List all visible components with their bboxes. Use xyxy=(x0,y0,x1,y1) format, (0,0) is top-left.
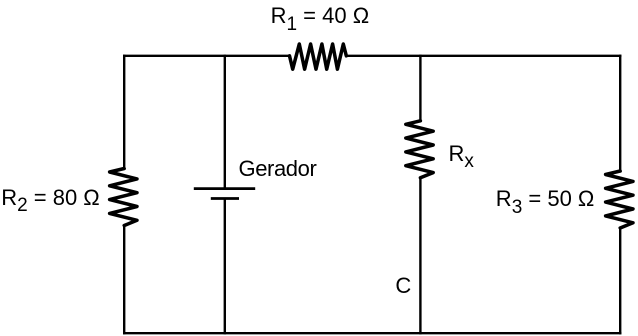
battery Gerador: long positive plate xyxy=(194,187,255,190)
label Gerador xyxy=(239,158,317,180)
wire left branch upper segment xyxy=(123,55,125,170)
resistor R2 xyxy=(110,169,137,226)
resistor R3 xyxy=(606,171,633,228)
wire Rx branch lower segment through node C xyxy=(419,177,421,335)
wire left branch lower segment xyxy=(123,225,125,335)
wire right branch upper segment xyxy=(619,55,621,172)
resistor R1 xyxy=(290,44,347,69)
wire generator branch lower segment xyxy=(224,199,226,335)
node C xyxy=(395,275,411,297)
wire Rx branch upper segment xyxy=(419,55,421,122)
label R1 = 40 Ohm xyxy=(271,5,370,27)
resistor Rx xyxy=(406,121,433,178)
wire top-left horizontal segment xyxy=(123,55,291,57)
battery Gerador: short negative plate xyxy=(211,197,239,200)
label R3 = 50 Ohm xyxy=(496,188,595,210)
label R2 = 80 Ohm xyxy=(1,187,100,209)
wire top-right horizontal segment xyxy=(345,55,621,57)
wire right branch lower segment xyxy=(619,227,621,334)
wire generator branch upper segment xyxy=(224,55,226,189)
wire bottom horizontal xyxy=(123,332,621,334)
label Rx xyxy=(449,143,474,165)
